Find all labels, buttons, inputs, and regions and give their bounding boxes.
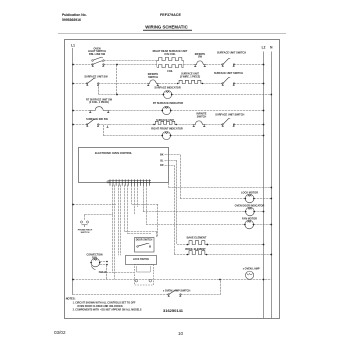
thermal limiter row A (194, 61, 206, 65)
door lock box (126, 256, 157, 265)
wire staircase 4 (143, 185, 145, 212)
wire fan motor row (146, 224, 245, 226)
thermal limiter row B (147, 80, 159, 84)
svg-text:(2 WIRE, 1 PIECE): (2 WIRE, 1 PIECE) (180, 75, 201, 78)
motor fan (245, 220, 254, 229)
heater broil element (187, 251, 206, 255)
heater bake element (187, 241, 206, 245)
wire lamp switch riser (220, 279, 222, 295)
motor convection fan (91, 258, 100, 267)
wire lock motor row (180, 198, 245, 200)
door switch box (135, 238, 155, 253)
thermal limiter row E (193, 121, 206, 125)
svg-text:(2 COIL, 1 PIECE): (2 COIL, 1 PIECE) (89, 101, 109, 104)
svg-text:● OVEN LAMP: ● OVEN LAMP (242, 267, 259, 270)
schematic frame (65, 40, 280, 319)
svg-text:LOCK SWITCH: LOCK SWITCH (133, 259, 150, 261)
wire L1 bus (72, 48, 74, 295)
svg-text:L2: L2 (262, 46, 266, 50)
wire coil join right (183, 60, 185, 67)
wire pin BK (165, 154, 181, 156)
svg-text:WIRING SCHEMATIC: WIRING SCHEMATIC (145, 25, 187, 30)
wire bake row (177, 244, 187, 246)
wire row E to row F drop (103, 125, 105, 136)
wire coil join left (156, 60, 158, 67)
switch surface unit row B (222, 83, 224, 85)
door lock dashed box (135, 265, 154, 286)
probe receptacle (80, 221, 82, 223)
wire fan out 1 (100, 261, 107, 263)
svg-text:BL: BL (160, 159, 164, 162)
wire row E (73, 124, 87, 126)
wire staircase 1 (125, 231, 157, 233)
heater coil upper (right rear surface unit) (157, 58, 184, 61)
svg-text:FEF379ACE: FEF379ACE (160, 13, 181, 17)
lamp oven door indicator (246, 207, 255, 216)
svg-text:5995368916: 5995368916 (62, 18, 81, 22)
svg-text:8 IN COIL: 8 IN COIL (164, 53, 176, 56)
wire pin BL (165, 160, 178, 162)
wire L1 branch y204.5 (73, 204, 116, 206)
svg-text:SURFACE UNIT SWITCH: SURFACE UNIT SWITCH (215, 114, 244, 117)
svg-text:2. COMPONENTS WITH • DO NOT: 2. COMPONENTS WITH • DO NOT APPEAR ON AL… (73, 309, 142, 312)
lamp oven (246, 271, 254, 279)
wire pin OR vertical (174, 165, 176, 255)
probe receptacle wires (85, 214, 114, 216)
electronic oven control box (79, 148, 169, 183)
wire fan bottom link (100, 272, 134, 274)
wire staircase 2 (128, 233, 151, 235)
svg-text:BAKE ELEMENT: BAKE ELEMENT (187, 236, 207, 239)
switch oven light (double pole) (92, 64, 94, 66)
wire junction vertical x117 (116, 65, 118, 94)
svg-text:ELECTRONIC OVEN CONTROL: ELECTRONIC OVEN CONTROL (95, 152, 133, 155)
wire row A upper branch (104, 60, 158, 62)
wire harness verticals (113, 185, 147, 280)
svg-text:03/02: 03/02 (54, 330, 66, 335)
lamp surface indicator (164, 90, 172, 98)
switch row B (86, 83, 88, 85)
wire row D (73, 110, 89, 112)
thermal limiter row D (89, 107, 109, 111)
svg-text:FAN HI: FAN HI (99, 271, 107, 274)
switch surface unit row A (222, 64, 224, 66)
wire fan out 2 (100, 264, 107, 266)
lamp rt surface indicator (162, 106, 170, 114)
motor lock (245, 194, 254, 203)
wire row C (98, 94, 163, 96)
svg-text:COIL: COIL (167, 70, 173, 73)
wire pin BK vertical (180, 155, 182, 199)
svg-text:BK: BK (160, 154, 164, 157)
wire fan drop (106, 265, 108, 280)
svg-text:DOOR SWITCH: DOOR SWITCH (136, 240, 153, 242)
switch surface unit row E (222, 124, 224, 126)
svg-text:DBL LINE SW: DBL LINE SW (89, 53, 106, 56)
heater coil lower (bake coil) (157, 65, 184, 68)
svg-text:316250141: 316250141 (163, 308, 184, 313)
wire broil row (174, 254, 187, 256)
svg-text:RT SURFACE INDICATOR: RT SURFACE INDICATOR (153, 102, 184, 105)
header rule (58, 32, 286, 35)
wire L2 bus (263, 52, 265, 319)
wire row A main (73, 64, 94, 66)
svg-text:SURFACE UNIT SW: SURFACE UNIT SW (84, 76, 108, 79)
svg-text:SURFACE UNIT SWITCH: SURFACE UNIT SWITCH (217, 51, 246, 54)
svg-text:SURFACE INDICATOR: SURFACE INDICATOR (154, 86, 180, 89)
svg-text:SWITCH: SWITCH (148, 76, 158, 79)
wire staircase 3 (132, 204, 158, 206)
svg-text:SURFACE IND SW: SURFACE IND SW (86, 118, 108, 121)
wire bottom row y279.4 (73, 279, 271, 281)
title underline bold (143, 29, 192, 32)
switch row E double (86, 124, 88, 126)
svg-text:Publication No.: Publication No. (62, 13, 87, 17)
svg-text:OVEN DOOR CLOSED AND UNLOCKED.: OVEN DOOR CLOSED AND UNLOCKED. (77, 305, 123, 308)
svg-text:FAN MOTOR: FAN MOTOR (242, 217, 257, 220)
heater coil row E (154, 121, 176, 124)
wire pin OR (165, 165, 175, 167)
svg-text:SURFACE UNIT: SURFACE UNIT (156, 119, 174, 122)
lamp right front indicator (162, 131, 170, 139)
svg-text:NOTES:: NOTES: (66, 297, 76, 301)
svg-text:RIGHT FRONT INDICATOR: RIGHT FRONT INDICATOR (151, 128, 183, 131)
heater coil row B (178, 80, 203, 83)
svg-text:L1: L1 (71, 44, 75, 48)
switch oven lamp (168, 294, 170, 296)
svg-text:OR: OR (160, 164, 164, 167)
door lock terminals (135, 279, 138, 282)
wire L1 bottom corner (73, 294, 169, 296)
wire row under control box (169, 187, 272, 189)
connector strip (109, 179, 152, 185)
wire row B to row C drop (98, 83, 100, 94)
svg-text:N: N (270, 46, 273, 50)
wire pin BL vertical (176, 160, 178, 244)
wire oven door indicator row (143, 211, 246, 213)
svg-text:10: 10 (178, 331, 184, 336)
svg-text:SWITCH: SWITCH (81, 232, 90, 234)
svg-text:SWITCH: SWITCH (197, 115, 207, 118)
wire row B (73, 83, 87, 85)
wire N bus (271, 52, 273, 319)
svg-text:SURFACE UNIT SWITCH: SURFACE UNIT SWITCH (214, 72, 243, 75)
wire row F (104, 135, 163, 137)
switch door (137, 246, 139, 248)
svg-text:SW: SW (198, 56, 203, 59)
